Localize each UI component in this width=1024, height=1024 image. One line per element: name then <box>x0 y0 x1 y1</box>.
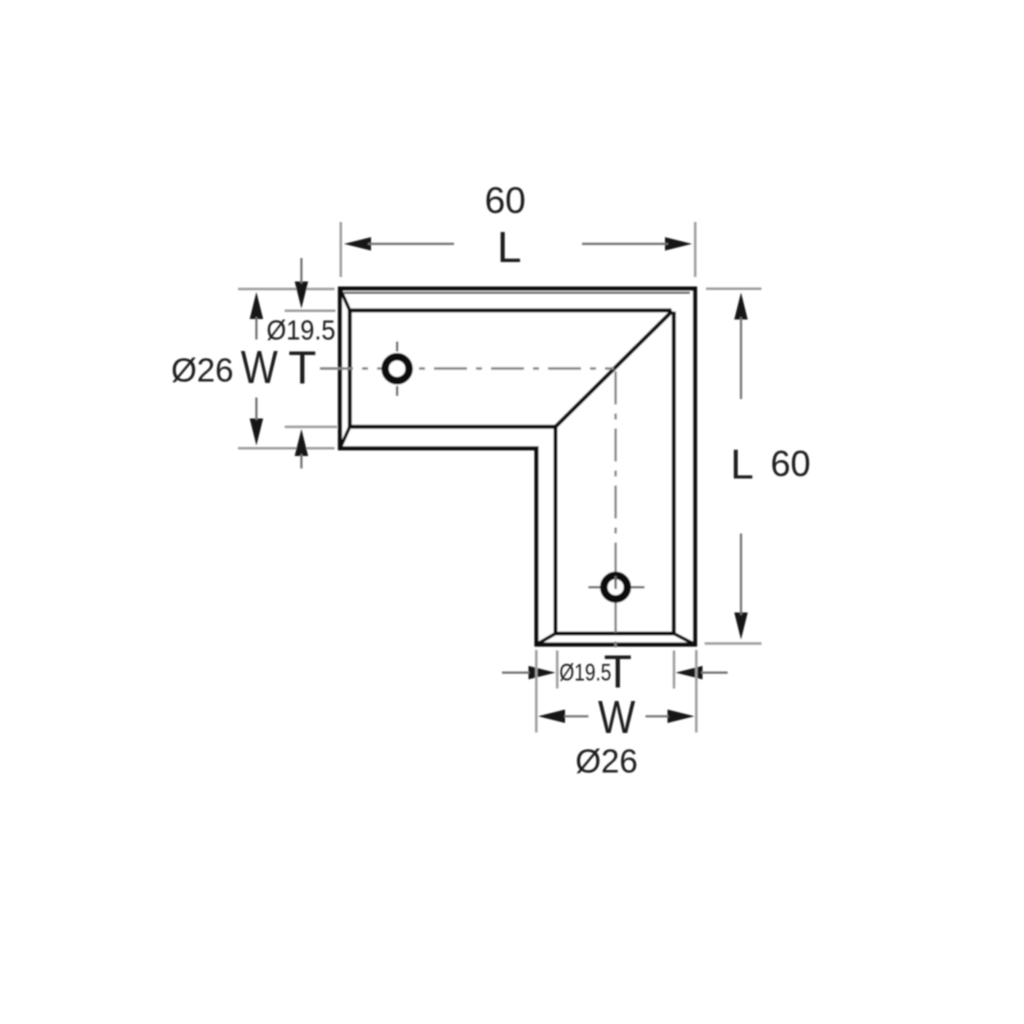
bottom T right arrow (pointing left) <box>676 666 703 680</box>
hole top (Ø19.5) <box>385 357 409 381</box>
left W extension line top <box>238 288 335 291</box>
svg-text:60: 60 <box>770 443 810 484</box>
hole bottom (Ø19.5) <box>604 575 628 599</box>
bottom T left arrow (pointing right) <box>529 666 556 680</box>
top edge companion line <box>344 292 690 294</box>
left W dimension top arrow <box>250 292 264 319</box>
bottom T extension line right <box>673 651 676 689</box>
top dimension left arrow <box>344 237 371 251</box>
hole bottom crosshair horizontal <box>588 586 601 588</box>
bevel inner top line <box>351 308 672 312</box>
left T dimension top arrow (pointing down) <box>295 282 309 309</box>
bevel inner left line <box>348 310 352 428</box>
svg-text:60: 60 <box>485 180 526 221</box>
svg-text:Ø26: Ø26 <box>575 743 637 780</box>
hole top crosshair vertical <box>396 342 398 352</box>
bevel leg inner left line <box>554 426 558 634</box>
right L dimension top arrow <box>734 293 748 320</box>
bottom W extension line right <box>695 650 698 733</box>
right L extension line bottom <box>705 642 762 645</box>
svg-text:T: T <box>604 646 632 698</box>
bottom W extension line left <box>535 650 538 733</box>
chamfer bottom-left of vertical leg <box>537 634 556 645</box>
centerline vertical (through bottom hole) <box>614 372 616 651</box>
left T extension line bottom <box>285 426 338 429</box>
right L dimension bottom arrow <box>734 613 748 640</box>
bevel leg inner bottom line <box>555 632 675 636</box>
bottom W left arrow <box>538 710 565 724</box>
left W dimension bottom arrow <box>250 419 264 446</box>
svg-text:T: T <box>288 342 316 394</box>
top dimension extension line right <box>694 222 697 277</box>
left W extension line bottom <box>238 447 335 450</box>
svg-text:W: W <box>598 691 636 743</box>
bottom T extension line left <box>556 651 559 689</box>
chamfer top-left <box>340 289 350 311</box>
chamfer bottom-left of horizontal leg <box>340 427 350 449</box>
hole bottom centerline inner segment <box>614 576 616 589</box>
svg-text:L: L <box>497 223 521 272</box>
bevel leg inner right line <box>672 312 676 635</box>
bevel inner bottom line (horizontal leg) <box>351 425 556 429</box>
right L extension line top <box>706 288 762 291</box>
left T dimension bottom arrow (pointing up) <box>295 429 309 456</box>
left T extension line top <box>285 310 336 313</box>
chamfer bottom-right of vertical leg <box>674 634 695 645</box>
miter diagonal <box>556 311 673 427</box>
part outer outline <box>340 289 695 645</box>
top dimension right arrow <box>665 237 692 251</box>
svg-text:Ø26: Ø26 <box>171 352 233 389</box>
top dimension extension line left <box>340 222 343 277</box>
svg-text:W: W <box>241 341 278 393</box>
centerline horizontal (through top hole) <box>320 367 614 369</box>
svg-text:L: L <box>730 441 753 488</box>
bottom W right arrow <box>668 710 695 724</box>
